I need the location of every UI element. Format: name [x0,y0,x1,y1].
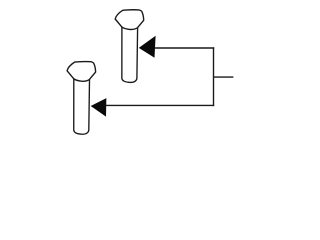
arrowhead A2 pointing at bolt B2 [91,98,107,117]
arrowhead A1 pointing at bolt B1 [139,36,156,58]
wire: bottom leader from corner to arrowhead A2 [106,104,214,106]
wire: vertical bracket line [213,47,215,106]
bolt B2 (lower) [67,62,96,135]
bolt B2 hex head [67,62,96,82]
bolt B2 shaft [74,79,90,134]
bolt B1 (upper) hex head [115,10,144,30]
bolt B1 (upper) shaft [122,27,138,82]
wire: stub to callout (right of bracket) [214,76,234,78]
wire: top leader from arrowhead A1 to corner [155,47,214,49]
